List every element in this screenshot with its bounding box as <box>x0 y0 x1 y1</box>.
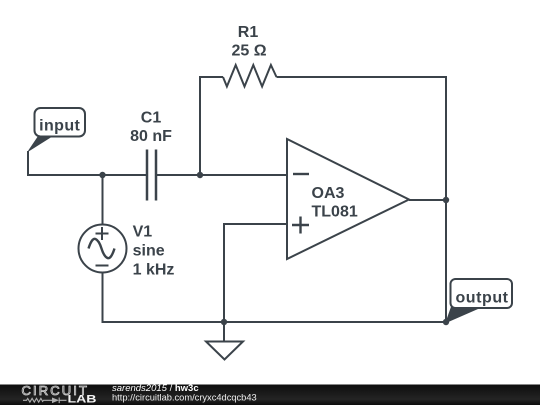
voltage source V1 <box>79 225 127 273</box>
svg-text:sine: sine <box>133 242 165 259</box>
wire output vertical <box>445 200 447 322</box>
svg-text:80 nF: 80 nF <box>130 128 172 145</box>
svg-text:LAB: LAB <box>68 393 97 405</box>
wire V1 bottom and ground net <box>103 273 447 323</box>
svg-text:output: output <box>455 290 508 307</box>
svg-text:25 Ω: 25 Ω <box>231 43 266 60</box>
svg-text:V1: V1 <box>133 224 153 241</box>
footer bar <box>0 385 540 405</box>
wire ground lead <box>223 322 225 341</box>
node junction C1 to R1 <box>197 172 203 178</box>
wire V1 top <box>102 175 104 225</box>
svg-text:1 kHz: 1 kHz <box>133 261 175 278</box>
svg-text:R1: R1 <box>238 24 259 41</box>
output callout <box>446 279 512 323</box>
wire op-amp plus input <box>224 224 287 322</box>
op-amp plus pin mark <box>292 217 309 234</box>
wire C1 right to op-amp minus input <box>157 174 287 176</box>
wire op-amp output <box>409 199 446 201</box>
node output junction <box>443 197 449 203</box>
op-amp OA3 <box>287 139 409 259</box>
svg-text:OA3: OA3 <box>312 185 345 202</box>
svg-text:http://circuitlab.com/cryxc4dc: http://circuitlab.com/cryxc4dcqcb43 <box>112 392 257 402</box>
ground <box>206 342 243 360</box>
wire R1 left vertical <box>200 77 223 175</box>
svg-text:input: input <box>39 117 80 134</box>
CircuitLab logo squiggle resistor-diode <box>23 398 67 404</box>
input callout <box>29 108 86 151</box>
node input junction at V1 <box>99 172 105 178</box>
resistor R1 <box>223 65 277 87</box>
op-amp minus pin mark <box>293 173 309 175</box>
capacitor C1 <box>147 150 156 201</box>
node ground junction <box>221 319 227 325</box>
wire R1 right lead to output column <box>277 77 447 199</box>
svg-text:C1: C1 <box>141 110 162 127</box>
svg-text:TL081: TL081 <box>312 204 358 221</box>
node output bottom junction <box>443 319 449 325</box>
wire input vertical and horizontal to C1 <box>28 151 146 175</box>
